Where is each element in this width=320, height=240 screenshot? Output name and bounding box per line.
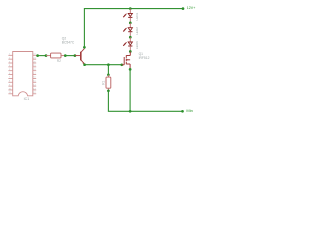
svg-text:12V+: 12V+ (187, 6, 196, 10)
node R1 top T-junction (107, 63, 110, 66)
node Q1 source pin junction (129, 68, 132, 71)
svg-text:BC547C: BC547C (62, 41, 75, 45)
svg-text:IRF512: IRF512 (139, 56, 150, 60)
wire R2 to Q2 base (65, 55, 75, 57)
wire Q1 source to bottom rail (129, 69, 131, 111)
LED1 (123, 9, 132, 23)
node IC pin junction (36, 54, 39, 57)
node R1 top pin junction (107, 73, 110, 76)
svg-text:LED2: LED2 (135, 27, 139, 35)
transistor Q1 (MOSFET) (122, 52, 131, 70)
svg-text:IC1: IC1 (24, 97, 30, 101)
IC IC1 (DIP body) (13, 52, 33, 96)
resistor R2 (46, 53, 65, 63)
node R1 bottom pin junction (107, 89, 110, 92)
LED3 (123, 37, 132, 51)
svg-text:R2: R2 (57, 59, 61, 63)
node Q2 base junction (74, 54, 77, 57)
svg-text:Min: Min (186, 108, 192, 113)
node LED2/LED3 junction (129, 36, 132, 39)
svg-text:R1: R1 (102, 80, 106, 84)
resistor R1 (102, 75, 111, 91)
LED2 (123, 23, 132, 37)
node R2 right junction (64, 54, 67, 57)
wire Q2 collector to top rail (84, 9, 183, 48)
node Min terminal (181, 110, 184, 113)
transistor Q2 (75, 47, 85, 64)
node R2 left junction (45, 54, 48, 57)
IC1 pin numbers (tiny grey) (9, 54, 37, 95)
svg-text:LED1: LED1 (135, 12, 139, 20)
node source/bottom rail junction (129, 110, 132, 113)
IC1 pins right (33, 55, 37, 94)
node Q2 collector junction (83, 46, 86, 49)
node LED3/Q1 drain junction (129, 50, 132, 53)
node Q2 emitter junction (83, 63, 86, 66)
node Q1 gate junction (120, 63, 123, 66)
node 12V+ terminal (182, 7, 185, 10)
node LED chain top junction (129, 7, 132, 10)
svg-text:LED3: LED3 (135, 41, 139, 49)
IC1 pins left (8, 55, 12, 94)
node LED1/LED2 junction (129, 22, 132, 25)
wire R1 top branch (107, 65, 109, 75)
wire Q2 emitter to Q1 gate (85, 64, 122, 66)
wire R1 bottom to bottom rail (108, 91, 182, 112)
wire IC pin to R2 (38, 55, 46, 57)
